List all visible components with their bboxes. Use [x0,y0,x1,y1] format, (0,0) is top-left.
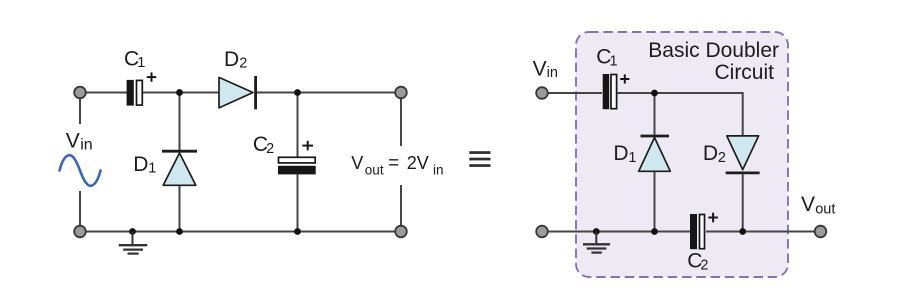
capacitor C2 right plate hollow [700,215,705,249]
wire C2 branch lower [297,175,299,232]
capacitor C2 right plate dark [690,214,697,249]
AC source sine [60,155,101,186]
terminal Vin [536,87,548,99]
wire right vertical lower stub [400,185,402,226]
dashed doubler box [576,32,788,277]
wire D1 branch lower [654,172,656,232]
junction dot D2 bottom right [739,228,746,235]
wire right vertical upper stub [400,99,402,146]
wire left vertical lower [79,191,81,226]
svg-text:Circuit: Circuit [714,61,774,84]
wire D1 branch upper [179,93,181,151]
C2 plus sign [302,141,313,151]
ground right [583,232,610,253]
terminal bottom left [536,226,548,238]
junction dot ground right [593,228,600,235]
diode D1 [162,151,197,185]
wire bottom rail right [706,231,815,233]
wire top rail segment 2 [618,92,743,94]
node A junction dot [176,89,183,96]
wire D2 corner down [742,92,744,135]
capacitor C1 plate hollow [137,80,143,105]
wire top rail right segment [256,92,396,94]
capacitor C2 plate dark [278,166,316,175]
capacitor C1 plate dark [127,80,134,106]
C1 plus sign [147,72,156,81]
wire top rail middle segment [143,92,219,94]
terminal Vout [815,226,827,238]
wire bottom rail left [548,231,691,233]
wire top rail left segment [85,92,127,94]
terminal input bottom [74,226,86,238]
terminal input top [74,87,86,99]
node junction after C1 [651,90,658,97]
diode D2 right [726,136,760,173]
junction dot D1 bottom [176,228,183,235]
wire D1 branch lower [179,186,181,232]
wire C2 branch upper [297,93,299,158]
C2 right plus sign [708,213,718,223]
diode D2 [219,76,256,109]
wire D1 branch upper [654,93,656,135]
wire bottom rail [85,231,396,233]
ground left [119,232,148,254]
capacitor C2 plate hollow [279,157,316,163]
wire D2 branch lower [742,174,744,231]
svg-text:Basic Doubler: Basic Doubler [648,39,779,62]
junction dot C2 bottom [294,228,301,235]
capacitor C1 right plate hollow [611,75,617,109]
junction dot ground [129,228,136,235]
capacitor C1 right plate dark [603,74,610,109]
diode D1 right [639,136,671,171]
terminal output top [395,87,407,99]
wire left vertical upper [79,98,81,124]
C1 right plus sign [620,74,629,83]
equivalence symbol [469,151,490,167]
junction dot D1 bottom right [651,228,658,235]
node B junction dot [294,89,301,96]
terminal output bottom [395,226,407,238]
wire top rail segment 1 [548,92,603,94]
